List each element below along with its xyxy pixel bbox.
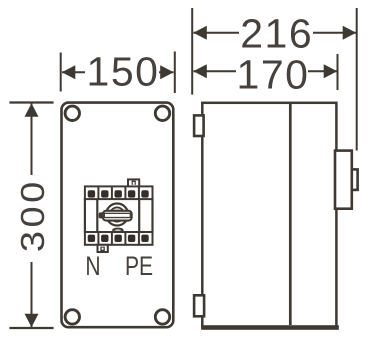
dim 170 extension bar right [337, 54, 339, 90]
dim 216 extension line right [356, 8, 358, 151]
rotary handle outer circle [106, 204, 128, 226]
svg-text:216: 216 [240, 11, 313, 57]
side view base bar [201, 325, 339, 330]
mounting hole top-right [155, 106, 169, 120]
mounting hole bottom-left [65, 310, 79, 324]
dim 216 text [239, 15, 313, 50]
bottom hinge tab [194, 295, 204, 316]
switch body side edges [85, 198, 153, 233]
top terminal screws [88, 190, 149, 197]
bottom terminal strip [85, 232, 153, 245]
switch top cover tab [128, 179, 139, 186]
dim 150 arrow right [160, 65, 174, 79]
front view enclosure box [62, 103, 174, 328]
shaft tip [352, 169, 358, 190]
dim 170 line [194, 70, 338, 72]
dim 216/170 extension line left [191, 8, 193, 95]
dim 150 text [85, 54, 159, 88]
svg-text:170: 170 [237, 52, 310, 98]
dim 216 line [194, 32, 357, 34]
side view cover seam [289, 104, 292, 325]
svg-text:150: 150 [87, 49, 160, 95]
dim 300 tick bottom [9, 327, 53, 329]
top hinge tab [194, 115, 204, 136]
svg-text:PE: PE [125, 252, 153, 282]
shaft housing [335, 151, 352, 209]
dim 216 arrow right [343, 26, 357, 40]
bottom terminal screws [88, 235, 149, 242]
dim 300 arrow up [25, 103, 39, 117]
svg-text:300: 300 [14, 178, 51, 252]
dim 150 extension bar left [60, 53, 62, 92]
dim 170 arrow left [193, 64, 207, 78]
top terminal strip [85, 186, 153, 199]
side view enclosure box [202, 103, 336, 328]
switch bottom tab [98, 245, 108, 252]
dim 300 arrow down [25, 314, 39, 328]
mounting hole top-left [65, 106, 79, 120]
dim 300 tick top [9, 101, 53, 103]
handle bar [103, 211, 132, 221]
dim 170 arrow right [324, 64, 338, 78]
dim 150 line [62, 71, 174, 73]
mounting hole bottom-right [155, 310, 169, 324]
rotary handle pointer ellipse [113, 229, 123, 232]
dim 150 arrow left [62, 65, 76, 79]
dim 300 text [14, 175, 50, 262]
handle left nub [99, 212, 104, 218]
dim 170 text [236, 56, 308, 89]
dim 150 extension bar right [174, 52, 176, 94]
rotary handle hub circle [110, 207, 124, 221]
dim 216 arrow left [193, 26, 207, 40]
dim 300 line [31, 104, 33, 328]
svg-text:N: N [85, 252, 100, 282]
